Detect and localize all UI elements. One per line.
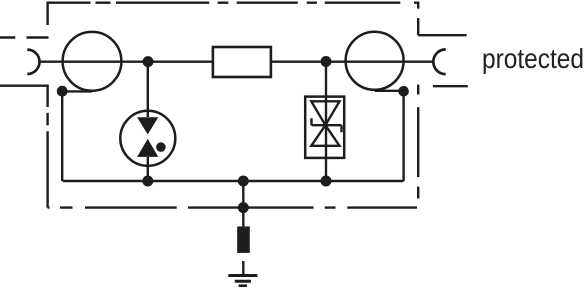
svg-text:protected: protected (482, 43, 584, 74)
